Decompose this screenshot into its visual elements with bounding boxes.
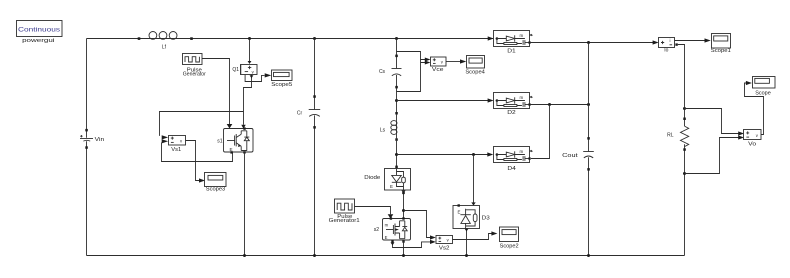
svg-text:Cs: Cs: [379, 69, 386, 75]
diode D2: [494, 93, 532, 116]
scope Scope3: [205, 173, 227, 193]
voltage measurement Vs1: [169, 136, 186, 153]
wire Cr branch: [314, 39, 316, 256]
wire RL bottom to Vo minus: [685, 138, 739, 174]
svg-text:powergui: powergui: [22, 38, 55, 44]
inductor Ls: [380, 112, 398, 141]
node junction RL top: [683, 107, 686, 110]
wire tap to Vs2 plus: [404, 211, 431, 238]
svg-text:D4: D4: [507, 166, 516, 172]
wire s1 emitter to bottom rail: [244, 152, 246, 256]
scope Scope4: [465, 56, 485, 76]
svg-text:RL: RL: [667, 132, 674, 138]
svg-text:D3: D3: [482, 216, 490, 222]
pulse generator: [183, 54, 207, 78]
inductor Lf: [138, 32, 193, 51]
wire Q1 bottom to scope5 and s1: [244, 75, 265, 125]
wire bottom rail: [87, 255, 685, 257]
svg-text:Vce: Vce: [432, 67, 444, 73]
wire riser D2 to D4 output: [531, 105, 550, 159]
wire RL top to Vo plus: [685, 109, 739, 134]
capacitor Cr: [297, 95, 320, 128]
wire PG1 to s2 gate: [355, 207, 391, 215]
svg-text:E: E: [458, 209, 461, 214]
voltage measurement Vce: [431, 57, 447, 73]
node bus arrow into D1: [488, 36, 494, 40]
svg-text:Vin: Vin: [95, 137, 105, 143]
svg-text:Scope4: Scope4: [465, 70, 485, 76]
MOSFET s2: [374, 217, 411, 242]
svg-text:m: m: [385, 222, 389, 227]
voltage measurement Vo: [744, 130, 762, 148]
node rail junction s1: [243, 254, 246, 257]
svg-text:Scope2: Scope2: [500, 244, 519, 250]
svg-text:Scope5: Scope5: [271, 82, 292, 88]
current measurement Io: [659, 38, 675, 54]
wire Vs1 output to Scope3: [186, 141, 200, 181]
svg-text:D2: D2: [507, 110, 516, 116]
wire Ls node to D4 input: [397, 154, 489, 156]
wire s2 drain to rail: [403, 240, 405, 256]
wire Diode bottom to s2: [402, 191, 406, 194]
capacitor Cs: [379, 55, 402, 89]
wire Vs1 plus tap: [160, 112, 244, 136]
node bus junction Q1: [248, 37, 251, 40]
wire Io to Scope1: [675, 40, 706, 42]
svg-text:Diode: Diode: [364, 175, 380, 181]
wire Cs branch: [396, 39, 398, 114]
svg-text:Ls: Ls: [380, 127, 386, 133]
diode block Diode: [364, 166, 410, 190]
wire RL branch: [684, 107, 686, 256]
wire bus to Q1: [249, 39, 251, 62]
svg-text:Q1: Q1: [232, 67, 239, 73]
node junction Cs to D2: [395, 99, 398, 102]
wire down to D3: [473, 155, 475, 203]
node bus junction Cr: [313, 37, 316, 40]
svg-text:D1: D1: [507, 48, 516, 54]
DC source Vin: [80, 129, 104, 149]
node Vce minus arrow: [425, 61, 431, 65]
node bus junction Cs: [395, 37, 398, 40]
svg-text:Vs1: Vs1: [171, 147, 181, 153]
wire Ls to Diode and node: [396, 140, 398, 167]
wire s2 source to Vs2 minus: [393, 242, 431, 248]
powergui block: [17, 21, 63, 45]
svg-text:Scope1: Scope1: [711, 48, 731, 54]
svg-text:Generator1: Generator1: [329, 218, 360, 224]
svg-text:Generator: Generator: [183, 72, 206, 78]
wire D2 output to Cout line: [530, 104, 589, 106]
pulse generator 1: [329, 199, 360, 224]
wire Io minus to RL: [675, 43, 684, 107]
wire Vo out to Scope: [745, 83, 764, 135]
scope Scope5: [271, 70, 292, 88]
svg-text:Scope: Scope: [755, 90, 771, 96]
node junction at Cout line: [587, 103, 590, 106]
wire Vce to Scope4: [446, 61, 460, 63]
node rail junction Cout: [587, 254, 590, 257]
scope Scope2: [500, 227, 519, 250]
node junction Cout top: [587, 41, 590, 44]
voltage measurement Q1: [232, 65, 257, 75]
resistor RL: [667, 118, 689, 151]
wire Vce bracket: [397, 52, 426, 92]
node junction RL bottom: [683, 172, 686, 175]
capacitor Cout: [562, 137, 594, 171]
wire to D2 input: [397, 100, 489, 102]
svg-text:Io: Io: [664, 48, 668, 54]
svg-text:Cr: Cr: [297, 110, 303, 116]
node junction D2-D4 riser: [548, 103, 551, 106]
IGBT s1: [217, 127, 253, 153]
scope Scope1: [711, 34, 731, 54]
node rail junction Cr: [313, 254, 316, 257]
svg-text:Scope3: Scope3: [206, 186, 226, 192]
node Vs1 plus arrow: [162, 135, 168, 139]
svg-text:s2: s2: [374, 227, 380, 233]
wire D3 bottom to rail: [466, 229, 468, 256]
node Vs1 minus arrow: [162, 139, 168, 143]
wire pulse generator to s1 gate: [202, 59, 230, 125]
svg-text:Lf: Lf: [162, 45, 167, 51]
svg-text:E: E: [385, 235, 388, 240]
svg-text:s1: s1: [217, 138, 223, 144]
diode D1: [494, 31, 532, 55]
wire Cout branch: [588, 43, 590, 256]
wire top bus: [87, 38, 494, 40]
wire Vs1 minus loop: [162, 143, 233, 162]
node gate arrow into s1: [227, 124, 233, 129]
svg-text:E: E: [390, 184, 393, 189]
diode block D3: [453, 204, 490, 228]
node junction D3 drop: [472, 153, 475, 156]
svg-text:Cout: Cout: [562, 153, 578, 159]
wire D1 to Io: [530, 42, 654, 44]
diode D4: [494, 147, 532, 172]
node Vce plus arrow: [425, 58, 431, 62]
svg-text:Vs2: Vs2: [439, 245, 450, 251]
wire Vs2 out to Scope2: [453, 234, 493, 240]
wire left rail: [86, 39, 88, 256]
scope Scope: [753, 77, 776, 97]
node junction Vs2 tap: [402, 209, 405, 212]
svg-text:Vo: Vo: [748, 141, 756, 147]
svg-text:Continuous: Continuous: [18, 27, 60, 34]
voltage measurement Vs2: [436, 236, 453, 252]
svg-text:i: i: [670, 38, 671, 43]
